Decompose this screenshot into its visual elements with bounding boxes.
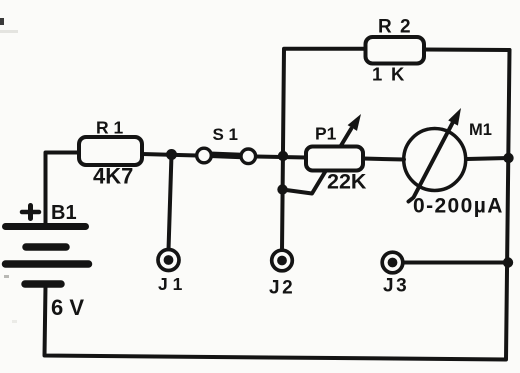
svg-text:0-200µA: 0-200µA — [413, 195, 504, 218]
svg-text:R 2: R 2 — [378, 17, 412, 38]
svg-text:1 K: 1 K — [372, 64, 406, 85]
svg-text:4K7: 4K7 — [93, 164, 133, 189]
svg-text:B1: B1 — [51, 202, 77, 224]
svg-text:6 V: 6 V — [51, 295, 84, 320]
svg-text:J2: J2 — [269, 278, 295, 299]
svg-text:22K: 22K — [327, 170, 367, 194]
svg-text:S 1: S 1 — [213, 125, 239, 144]
svg-text:R 1: R 1 — [96, 118, 124, 138]
svg-text:P1: P1 — [315, 124, 337, 144]
svg-text:J 1: J 1 — [158, 274, 183, 294]
svg-text:M1: M1 — [469, 121, 492, 139]
svg-text:J3: J3 — [383, 276, 409, 297]
